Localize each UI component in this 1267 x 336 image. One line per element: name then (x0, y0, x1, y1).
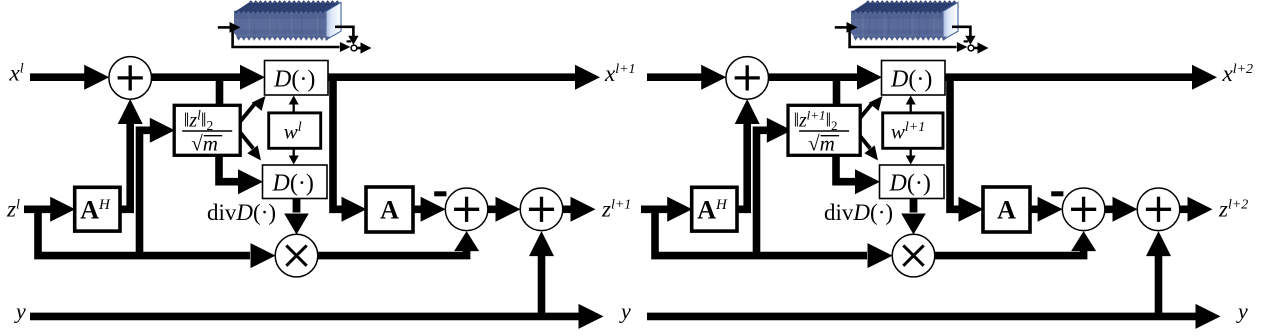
wire: branch up from product line into norm box (757, 118, 792, 256)
wire: second adder to z output (1180, 197, 1213, 222)
minus sign at icon subtract node (964, 40, 969, 42)
wire: icon output arrow (974, 42, 989, 53)
box: A^H (75, 187, 120, 231)
svg-text:y: y (619, 299, 631, 324)
wire: y branch up into second adder (529, 231, 554, 316)
wire: adder to D box (152, 65, 266, 90)
svg-text:y: y (14, 299, 26, 324)
multiplier node (275, 234, 318, 277)
wire: icon output down into subtract node (952, 27, 976, 45)
wire: icon skip connection under block (850, 27, 968, 52)
wire: adder to D box (769, 65, 883, 90)
arrow: norm box to lower D (diagonal) (240, 133, 261, 161)
minus sign above subtract adder input (1051, 191, 1063, 196)
box: A (983, 187, 1030, 232)
arrow: w box down into lower D (289, 147, 299, 164)
wire: second adder to z output (563, 197, 596, 222)
wire: stub x-path down to norm box top (216, 77, 224, 107)
svg-text:D(·): D(·) (272, 170, 314, 196)
box: lower denoiser D(.) (263, 165, 328, 199)
arrow: divergence of D down into multiplier (901, 199, 926, 235)
wire: x-path input into adder (stage l+1) (647, 65, 726, 90)
arrow: norm box to lower D (diagonal) (857, 133, 878, 161)
wire: icon input arrow (835, 22, 858, 33)
adder (input sum) (109, 57, 152, 100)
second adder (add y) (520, 188, 563, 231)
svg-text:A: A (997, 195, 1016, 224)
svg-text:divD(·): divD(·) (207, 200, 276, 225)
wire: z input into A^H box (641, 197, 692, 222)
wire: multiplier output right and up into subtract adder (935, 231, 1096, 256)
wire: icon output arrow (357, 42, 372, 53)
arrow: w box up into upper D (906, 96, 916, 114)
wire: D box output to next stage x (328, 65, 600, 90)
svg-text:D(·): D(·) (890, 67, 932, 93)
svg-text:A: A (380, 195, 399, 224)
wire: A^H output up into adder (118, 99, 143, 209)
second adder (add y) (1137, 188, 1180, 231)
wire: branch up from product line into norm box (140, 118, 175, 256)
minus sign at icon subtract node (347, 40, 352, 42)
arrow: w box down into lower D (906, 147, 916, 164)
subtract adder (445, 188, 488, 231)
multiplier node (892, 234, 935, 277)
icon subtract node circle (968, 45, 974, 51)
box: upper denoiser D(.) (882, 61, 946, 96)
adder (input sum) (726, 57, 769, 100)
box: upper denoiser D(.) (265, 61, 329, 96)
wire: z input branch down to product line (655, 209, 893, 268)
box: norm ||z^l||/sqrt(m) (174, 105, 240, 155)
box: lower denoiser D(.) (880, 165, 945, 199)
wire: multiplier output right and up into subtract adder (318, 231, 479, 256)
svg-text:divD(·): divD(·) (824, 200, 893, 225)
svg-text:y: y (1236, 299, 1248, 324)
wire: subtract adder to second adder (1105, 197, 1138, 222)
wire: norm box bottom into lower D box (219, 153, 263, 194)
box: A^H (692, 187, 737, 231)
wire: norm box bottom into lower D box (836, 153, 880, 194)
arrow: norm box to upper D (diagonal) (240, 96, 265, 122)
minus sign above subtract adder input (434, 191, 446, 196)
subtract adder (1062, 188, 1105, 231)
box: A (366, 187, 413, 232)
wire: drop from x-path down and into A box (333, 77, 367, 222)
wire: z input into A^H box (24, 197, 75, 222)
arrow: w box up into upper D (289, 96, 299, 114)
svg-text:D(·): D(·) (273, 67, 315, 93)
wire: A box into subtract adder (413, 197, 446, 222)
wire: y line (30, 304, 604, 329)
wire: stub x-path down to norm box top (833, 77, 841, 107)
wire: icon skip connection under block (233, 27, 351, 52)
wire: D box output to next stage x (945, 65, 1217, 90)
arrow: divergence of D down into multiplier (284, 199, 309, 235)
wire: y line (647, 304, 1221, 329)
wire: A^H output up into adder (735, 99, 760, 209)
denoiser block icon (3D layered brick) (851, 0, 958, 41)
wire: y branch up into second adder (1146, 231, 1171, 316)
denoiser block icon (3D layered brick) (234, 0, 341, 41)
wire: z input branch down to product line (38, 209, 276, 268)
svg-text:D(·): D(·) (889, 170, 931, 196)
arrow: norm box to upper D (diagonal) (857, 96, 882, 122)
box: norm ||z^l+1||/sqrt(m) (788, 105, 860, 155)
wire: subtract adder to second adder (488, 197, 521, 222)
wire: drop from x-path down and into A box (950, 77, 984, 222)
box: weight w^l+1 (883, 113, 943, 148)
icon subtract node circle (351, 45, 357, 51)
wire: icon output down into subtract node (335, 27, 359, 45)
box: weight w^l (269, 113, 321, 148)
wire: x-path input into adder (stage l) (30, 65, 109, 90)
wire: icon input arrow (218, 22, 241, 33)
wire: A box into subtract adder (1030, 197, 1063, 222)
